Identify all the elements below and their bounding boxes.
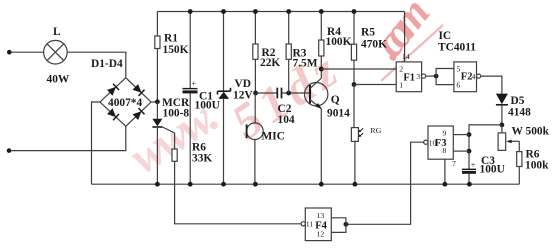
thyristor MCR 100-8	[152, 119, 162, 127]
diode D3 (bottom-left arm)	[107, 108, 119, 120]
svg-text:13: 13	[317, 211, 325, 220]
svg-text:100U: 100U	[480, 164, 505, 176]
F4 output bubble	[301, 222, 305, 226]
label F3	[435, 138, 447, 149]
resistor R1	[155, 36, 160, 49]
label 100-8	[163, 107, 190, 119]
pin label 6 (F2)	[456, 81, 460, 90]
wire top rail to R5	[353, 12, 355, 45]
junction F4 input tie	[344, 222, 349, 227]
wire top rail to C1	[189, 12, 191, 88]
junction R5 top rail	[352, 9, 357, 14]
label IC	[439, 30, 452, 42]
node mic/C2	[253, 91, 258, 96]
wire D5 to W node	[501, 105, 503, 125]
wire top rail to R2	[254, 12, 256, 45]
label 33K	[192, 153, 212, 165]
wire top rail to R4	[320, 12, 322, 41]
label 100k	[525, 159, 549, 171]
label 40W	[47, 73, 70, 85]
svg-text:VD: VD	[235, 78, 251, 90]
svg-text:100U: 100U	[195, 100, 220, 112]
svg-text:F3: F3	[435, 138, 447, 149]
node R5/RG/F1pin1	[352, 82, 357, 87]
photoresistor RG	[351, 128, 363, 142]
junction VD top rail	[221, 9, 226, 14]
junction C1 top rail	[188, 9, 193, 14]
label VD	[235, 78, 251, 90]
pin label 4 (F2)	[471, 72, 475, 81]
svg-text:4: 4	[471, 72, 475, 81]
wire node to W top	[501, 125, 503, 133]
wire F4 pin12	[331, 224, 346, 232]
wire top rail to F1 pin14	[404, 12, 406, 62]
gate F3 box	[428, 126, 453, 159]
wire R2 to mic node	[254, 59, 256, 93]
resistor R6 100k	[517, 152, 522, 167]
bridge rectifier D1-D4 frame	[100, 78, 151, 127]
label 4007*4	[108, 97, 142, 109]
svg-text:7.5M: 7.5M	[293, 58, 318, 70]
capacitor C1 100U	[183, 79, 198, 93]
svg-text:F1: F1	[403, 72, 415, 83]
pin label 2 (F1)	[399, 64, 403, 73]
label 150K	[163, 44, 189, 56]
svg-text:9014: 9014	[327, 108, 350, 120]
microphone MIC	[247, 123, 264, 140]
wire R6 to F4 output	[175, 161, 301, 224]
svg-text:12V: 12V	[233, 90, 253, 102]
svg-text:100k: 100k	[525, 159, 549, 171]
svg-text:6: 6	[456, 81, 460, 90]
wire top rail to R3	[288, 12, 290, 45]
svg-text:4148: 4148	[508, 107, 531, 119]
label R3	[293, 47, 307, 59]
label 100U (C1)	[195, 100, 220, 112]
svg-text:5: 5	[456, 64, 460, 73]
potentiometer W 500k	[498, 133, 519, 151]
pin label 7 (F3)	[452, 159, 456, 168]
label 12V	[233, 90, 253, 102]
wire node to C2	[256, 92, 277, 94]
positive supply rail (top)	[157, 11, 404, 13]
junction MIC on rail	[253, 182, 258, 187]
label D5	[511, 95, 525, 107]
AC input terminal (top)	[7, 50, 12, 55]
wire R1 to node	[156, 49, 158, 100]
pin label 12 (F4)	[317, 229, 325, 238]
wire lamp to bridge top vertex	[67, 52, 126, 77]
wire node to RG	[353, 85, 355, 128]
svg-text:F4: F4	[315, 221, 327, 232]
svg-text:L: L	[53, 26, 61, 38]
label W 500k	[512, 126, 550, 138]
svg-text:+: +	[471, 160, 476, 169]
wire node to SCR anode	[156, 102, 158, 119]
label 470K	[361, 38, 387, 50]
node R3/base	[286, 91, 291, 96]
svg-text:R1: R1	[164, 33, 178, 45]
zener diode VD 12V	[218, 88, 231, 99]
transistor Q 9014	[305, 78, 328, 109]
svg-text:7: 7	[452, 159, 456, 168]
label F1	[403, 72, 415, 83]
svg-text:D1-D4: D1-D4	[91, 58, 123, 70]
svg-text:104: 104	[278, 114, 295, 126]
lamp L	[11, 40, 67, 64]
svg-text:+: +	[192, 79, 197, 88]
pin label 3 (F1)	[416, 72, 420, 81]
wire node to F1 pin1	[354, 84, 396, 86]
resistor R6 33K	[172, 149, 177, 161]
label RG	[370, 126, 381, 135]
svg-text:D5: D5	[511, 95, 525, 107]
label TC4011	[438, 42, 476, 54]
svg-text:R5: R5	[361, 27, 375, 39]
wire R6 100k to ground rail	[518, 167, 520, 185]
junction RG on rail	[353, 182, 358, 187]
pin label 10 (F3)	[429, 138, 437, 147]
resistor R4 100K	[319, 40, 324, 56]
junction VD on rail	[221, 182, 226, 187]
wire C1 to ground rail	[189, 93, 191, 184]
label 4148	[508, 107, 531, 119]
wire F3 pin9	[453, 134, 469, 136]
label C1	[199, 91, 213, 103]
svg-text:40W: 40W	[47, 73, 70, 85]
svg-text:470K: 470K	[361, 38, 387, 50]
label R2	[262, 47, 276, 59]
resistor R2 22K	[253, 44, 258, 59]
svg-text:4007*4: 4007*4	[108, 97, 142, 109]
svg-text:100-8: 100-8	[163, 107, 190, 119]
label R5	[361, 27, 375, 39]
pin label 11 (F4)	[306, 220, 314, 229]
wire C2 to base	[282, 92, 310, 94]
svg-text:RG: RG	[370, 126, 381, 135]
wire emitter to ground rail	[320, 109, 322, 185]
pin label 5 (F2)	[456, 64, 460, 73]
wire W node to F3 inputs column	[469, 125, 502, 169]
wire node to F1 pin2	[321, 68, 396, 70]
pin label 1 (F1)	[399, 81, 403, 90]
svg-text:100K: 100K	[326, 36, 352, 48]
svg-text:150K: 150K	[163, 44, 189, 56]
junction C1 on rail	[188, 182, 193, 187]
wire SCR gate	[162, 127, 174, 149]
junction R3 top rail	[286, 9, 291, 14]
svg-text:10: 10	[429, 138, 437, 147]
wire bridge right vertex to R1/SCR node	[151, 101, 157, 103]
F2 output bubble	[477, 74, 481, 78]
wire F2 output to D5	[481, 76, 502, 94]
label R6 (100k)	[526, 148, 540, 160]
node collector/R4	[319, 67, 324, 72]
diode D5 4148	[496, 94, 508, 105]
svg-text:11: 11	[306, 220, 314, 229]
label 22K	[260, 57, 280, 69]
svg-text:TC4011: TC4011	[438, 42, 476, 54]
wire bottom terminal to bridge bottom vertex	[11, 126, 126, 150]
svg-text:MIC: MIC	[262, 131, 285, 143]
label F2	[461, 72, 473, 83]
gate F1 box	[396, 62, 421, 92]
wire node to MIC	[254, 93, 256, 123]
node D5/W/F3	[500, 123, 505, 128]
capacitor C2 104	[277, 88, 281, 99]
resistor R3 7.5M	[286, 44, 291, 59]
label L	[53, 26, 61, 38]
label MIC	[262, 131, 285, 143]
svg-text:33K: 33K	[192, 153, 212, 165]
wire VD to ground rail	[223, 99, 225, 184]
wire W wiper to R6	[518, 141, 520, 151]
svg-text:Q: Q	[331, 94, 340, 106]
pin label 8 (F3)	[443, 146, 447, 155]
diode D1 (top-left arm)	[107, 84, 119, 96]
wire collector up	[320, 69, 322, 78]
wire F3 output to F4 inputs	[346, 142, 424, 224]
junction R2 top rail	[253, 9, 258, 14]
svg-text:9: 9	[443, 129, 447, 138]
wire bridge left vertex to ground rail	[92, 102, 101, 184]
wire R5 down	[353, 60, 355, 84]
F3 output bubble	[424, 140, 428, 144]
label R6 (33K)	[192, 142, 206, 154]
diode D2 (top-right arm)	[133, 84, 145, 96]
pin label 13 (F4)	[317, 211, 325, 220]
svg-text:3: 3	[416, 72, 420, 81]
wire F4 pin13	[331, 218, 346, 225]
svg-text:22K: 22K	[260, 57, 280, 69]
gate F2 box	[454, 62, 477, 92]
ground rail (bottom)	[92, 183, 520, 185]
label C2	[278, 103, 292, 115]
node R1/SCR anode	[155, 99, 160, 104]
label MCR	[162, 97, 190, 109]
wire F3 pin7 to ground rail	[444, 159, 446, 184]
label 100K (R4)	[326, 36, 352, 48]
label D1-D4	[91, 58, 123, 70]
junction F3 pin7 on rail	[443, 182, 448, 187]
wire top rail to R1	[156, 12, 158, 37]
gate F4 box	[305, 208, 331, 241]
resistor R5 470K	[351, 44, 356, 60]
F1 output bubble	[422, 74, 426, 78]
diode D4 (bottom-right arm)	[133, 108, 145, 120]
svg-text:W 500k: W 500k	[512, 126, 550, 138]
wire SCR cathode to ground rail	[156, 127, 158, 184]
watermark www.51dz.com (decorative)	[120, 90, 225, 184]
label 9014	[327, 108, 350, 120]
AC input terminal (bottom)	[7, 148, 12, 153]
label 104	[278, 114, 295, 126]
wire R3 to base node	[288, 59, 290, 93]
pin label 14	[402, 52, 410, 61]
label 7.5M	[293, 58, 318, 70]
svg-text:14: 14	[402, 52, 410, 61]
wire F3 pin8	[453, 150, 469, 152]
label Q	[331, 94, 340, 106]
label F4	[315, 221, 327, 232]
svg-text:IC: IC	[439, 30, 452, 42]
wire R4 to collector node	[320, 56, 322, 69]
junction emitter on rail	[319, 182, 324, 187]
wire top rail to VD	[223, 12, 225, 91]
wire F1 output to F2 inputs	[426, 69, 454, 85]
label R4	[327, 26, 341, 38]
label R1	[164, 33, 178, 45]
capacitor C3 100U	[462, 160, 476, 173]
wire RG to ground rail	[354, 141, 356, 184]
junction F3 pin8	[467, 149, 472, 154]
pin label 9 (F3)	[443, 129, 447, 138]
wire C3 to ground rail	[468, 174, 470, 184]
junction R4 top rail	[319, 9, 324, 14]
junction F3 pin9	[467, 132, 472, 137]
junction SCR cathode on rail	[155, 182, 160, 187]
label C3	[481, 155, 495, 167]
junction C3 on rail	[467, 182, 472, 187]
wire MIC to ground rail	[254, 140, 256, 185]
label 100U (C3)	[480, 164, 505, 176]
